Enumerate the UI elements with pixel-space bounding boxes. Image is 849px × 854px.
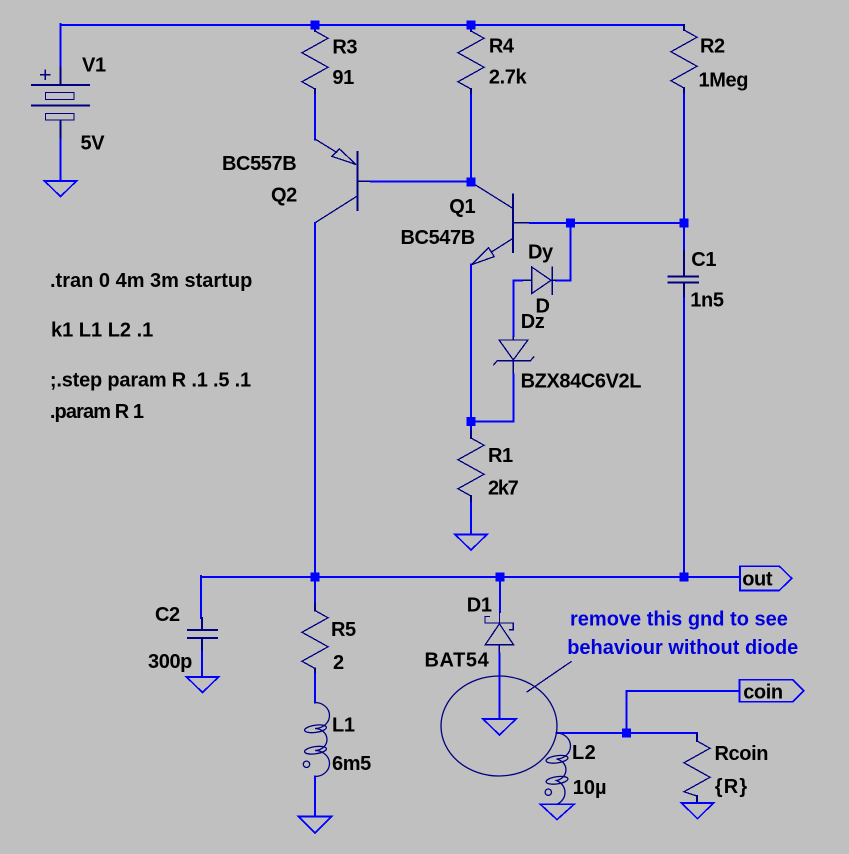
svg-text:91: 91 <box>332 67 354 89</box>
wire D1 to ground <box>499 654 501 720</box>
wire zener to node R1 <box>471 374 513 421</box>
wire C2 top lead <box>200 576 202 618</box>
ground (Rcoin) <box>682 803 714 819</box>
svg-text:coin: coin <box>743 682 783 704</box>
svg-text:R3: R3 <box>332 36 357 58</box>
inductor L2 <box>545 733 570 804</box>
svg-text:2k7: 2k7 <box>488 478 519 500</box>
svg-text:out: out <box>742 569 773 591</box>
ground (R1) <box>455 535 487 551</box>
svg-text:2.7k: 2.7k <box>489 67 528 89</box>
wire D1 top lead <box>499 577 501 612</box>
svg-text:k1 L1 L2 .1: k1 L1 L2 .1 <box>51 320 153 342</box>
svg-text:Q1: Q1 <box>449 196 475 218</box>
junction node R1 top <box>467 417 476 426</box>
transistor Q1 BC547B npn <box>472 184 531 265</box>
wire C2 to ground <box>201 652 203 677</box>
junction node out rail R5 <box>311 573 320 582</box>
svg-text:R2: R2 <box>700 36 725 58</box>
wire R3 to Q2 emitter <box>314 95 316 140</box>
capacitor C1 <box>669 251 699 298</box>
junction node L2/coin <box>622 729 631 738</box>
svg-text:Q2: Q2 <box>271 185 297 207</box>
svg-text:Rcoin: Rcoin <box>715 743 769 765</box>
wire coin branch <box>627 691 740 733</box>
wire Dy cathode branch <box>556 223 571 280</box>
wire Q2 base to node B <box>371 180 471 182</box>
svg-text:BC557B: BC557B <box>222 153 296 175</box>
wire C1 down to out rail <box>683 298 685 577</box>
svg-text:.tran 0 4m 3m startup: .tran 0 4m 3m startup <box>50 270 252 292</box>
svg-text:Dy: Dy <box>528 242 554 264</box>
junction node top R4 <box>467 21 476 30</box>
wire Q1 base to C1 node <box>530 222 684 224</box>
svg-text:L1: L1 <box>332 715 355 737</box>
ground (C2) <box>187 677 219 693</box>
ground (L2) <box>541 804 575 819</box>
junction node top R3 <box>311 21 320 30</box>
junction node out rail D1 <box>496 573 505 582</box>
svg-text:R1: R1 <box>488 445 513 467</box>
resistor R2 <box>671 25 697 94</box>
svg-text:C1: C1 <box>691 249 716 271</box>
ground (L1) <box>299 817 332 834</box>
diode Dy <box>522 267 556 294</box>
svg-text:remove this gnd to see: remove this gnd to see <box>570 609 788 631</box>
svg-text:BZX84C6V2L: BZX84C6V2L <box>521 370 642 392</box>
resistor Rcoin <box>684 734 710 803</box>
svg-text:1n5: 1n5 <box>690 290 724 312</box>
node coin flag <box>740 680 804 702</box>
wire Dy anode to zener <box>513 280 522 336</box>
svg-text:R4: R4 <box>489 36 515 58</box>
junction node Dy branch <box>566 218 575 227</box>
node out flag <box>740 566 792 590</box>
svg-text:L2: L2 <box>572 742 596 764</box>
wire R2 down to C1 and node <box>683 94 685 251</box>
voltage source V1 battery symbol <box>32 68 89 140</box>
wire Q1 emitter down <box>470 265 472 422</box>
svg-text:;.step param R .1 .5 .1: ;.step param R .1 .5 .1 <box>50 369 251 391</box>
wire top rail V1 to R2 <box>61 24 685 26</box>
resistor R5 <box>302 604 328 674</box>
resistor R1 <box>458 431 484 503</box>
wire R5 to L1 <box>314 674 316 703</box>
svg-text:C2: C2 <box>155 604 180 626</box>
svg-text:300p: 300p <box>148 651 192 673</box>
svg-text:5V: 5V <box>81 133 106 155</box>
annotation pointer line <box>527 662 571 692</box>
wire V1 top lead <box>60 24 62 68</box>
svg-text:Dz: Dz <box>521 311 545 333</box>
resistor R4 <box>458 25 484 95</box>
capacitor C2 <box>188 618 217 652</box>
junction node C1 top <box>680 218 689 227</box>
svg-text:behaviour without diode: behaviour without diode <box>567 637 798 659</box>
diode D1 BAT54 schottky <box>485 612 514 654</box>
svg-text:BC547B: BC547B <box>401 227 475 249</box>
svg-text:10µ: 10µ <box>573 777 607 799</box>
zener diode Dz <box>494 336 534 374</box>
ground (D1 inside circle) <box>483 719 516 735</box>
svg-text:D1: D1 <box>467 595 492 617</box>
wire R4 to node B <box>470 95 472 178</box>
svg-text:2: 2 <box>333 652 344 674</box>
junction node B (R4/Q2 base/Q1 collector) <box>467 178 476 187</box>
svg-text:R5: R5 <box>331 619 356 641</box>
wire R1 to ground <box>470 503 472 535</box>
transistor Q2 BC557B pnp <box>315 139 371 223</box>
svg-text:6m5: 6m5 <box>332 753 371 775</box>
svg-text:V1: V1 <box>82 55 106 77</box>
ground (V1) <box>45 181 77 197</box>
annotation circle around gnd <box>441 676 557 776</box>
wire R5 top lead <box>314 577 316 604</box>
inductor L1 <box>303 703 329 777</box>
svg-text:.param R 1: .param R 1 <box>50 401 144 423</box>
wire out rail <box>201 576 740 578</box>
wire Rcoin top lead <box>696 733 698 734</box>
resistor R3 <box>302 25 328 95</box>
svg-text:1Meg: 1Meg <box>699 70 749 92</box>
wire V1 to ground <box>60 140 62 181</box>
svg-text:BAT54: BAT54 <box>425 650 490 672</box>
junction node out rail C1 <box>680 573 689 582</box>
wire R1 top lead <box>470 422 472 432</box>
wire L1 to ground <box>314 777 316 817</box>
wire Q2 collector down to out rail <box>314 223 316 577</box>
wire L2 top rail <box>557 732 698 734</box>
svg-text:{R}: {R} <box>715 776 749 798</box>
